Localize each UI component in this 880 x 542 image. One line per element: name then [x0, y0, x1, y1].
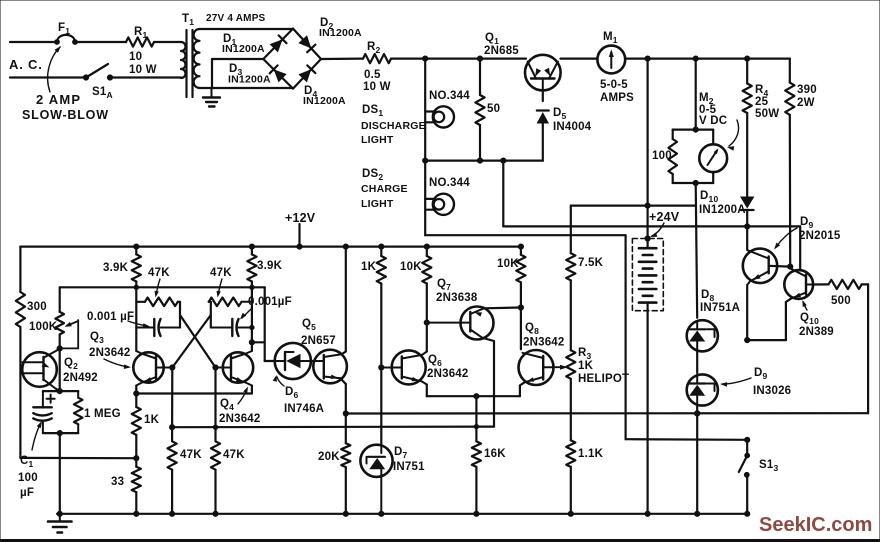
wire +12V rail	[20, 244, 523, 249]
diode D2	[298, 35, 315, 52]
svg-text:50W: 50W	[755, 108, 779, 120]
label 16K	[484, 448, 506, 460]
label DS2	[361, 168, 408, 210]
diode D1	[270, 35, 287, 52]
wire 7.5K top	[570, 206, 572, 254]
wire right net left side	[210, 302, 212, 328]
zener D6	[275, 343, 311, 379]
svg-text:SeekIC.com: SeekIC.com	[759, 514, 872, 536]
label Q3	[89, 331, 130, 359]
label Q8	[523, 322, 564, 349]
svg-text:IN746A: IN746A	[284, 403, 324, 415]
wire switch to T1 primary	[110, 76, 181, 78]
label T1	[182, 13, 194, 27]
svg-text:3.9K: 3.9K	[103, 262, 129, 274]
wire Q10 emitter	[747, 299, 791, 341]
svg-text:2N3642: 2N3642	[523, 337, 564, 349]
wire M2 feed	[695, 59, 697, 130]
wire D6 to Q5	[311, 360, 314, 362]
meter M1	[597, 46, 625, 74]
label 10K second	[497, 258, 519, 270]
label D5	[553, 107, 592, 133]
wire D10 to Q9	[746, 226, 748, 249]
wire 800 drop	[799, 226, 801, 270]
callout arrow D6	[273, 375, 284, 386]
svg-text:20K: 20K	[318, 451, 340, 463]
transistor Q1	[525, 55, 561, 91]
label Q10	[799, 312, 834, 338]
label Q7	[436, 278, 478, 304]
border bottom edge	[0, 540, 880, 542]
resistor 390	[785, 59, 794, 267]
label D10	[699, 190, 746, 216]
watermark SeekIC.com	[759, 514, 872, 536]
potentiometer R3	[566, 350, 575, 440]
capacitor 0.001 left	[136, 319, 180, 336]
wire to D6	[265, 360, 275, 362]
wire bridge edge TL	[263, 29, 293, 59]
svg-text:2 AMP: 2 AMP	[36, 92, 81, 107]
svg-text:5-0-5: 5-0-5	[600, 79, 628, 91]
transistor Q10	[784, 268, 813, 299]
callout arrow Q10	[803, 300, 808, 310]
label R4	[755, 84, 779, 120]
wire M2 box bottom	[673, 180, 714, 185]
wire bridge edge BR	[293, 59, 321, 89]
resistor 7.5K	[566, 253, 575, 350]
svg-text:LIGHT: LIGHT	[361, 134, 394, 146]
label 20K	[318, 451, 340, 463]
battery +24V	[639, 248, 656, 302]
wire M1 right bus	[625, 56, 790, 61]
svg-text:390: 390	[797, 84, 817, 96]
wire pot to box	[57, 346, 62, 394]
label 100	[652, 150, 672, 162]
switch S13	[739, 440, 750, 514]
wire bottom bus	[57, 511, 750, 516]
label 3.9K right	[257, 260, 283, 272]
wire left vertical top	[19, 247, 21, 292]
label 100K	[29, 321, 58, 333]
svg-text:2N3638: 2N3638	[436, 292, 478, 304]
label 300	[27, 301, 47, 313]
wire Q5 emitter down	[340, 378, 346, 413]
label 390	[797, 84, 817, 109]
wire +12V stub	[298, 224, 300, 247]
wire lamp branch vertical	[424, 59, 426, 236]
transistor Q6	[379, 350, 427, 384]
wire bus 427	[170, 424, 495, 429]
label 2 AMP SLOW-BLOW	[22, 92, 109, 122]
zener D7	[360, 445, 392, 514]
wire 458 horizontal	[20, 456, 138, 461]
wire Q3 emitter drop	[134, 386, 139, 397]
transistor Q5	[313, 350, 347, 384]
resistor 33	[132, 467, 141, 514]
resistor 10K first	[422, 247, 431, 323]
wire 300 to Q2	[19, 327, 21, 458]
svg-text:IN4004: IN4004	[553, 121, 592, 133]
label C1	[18, 455, 38, 499]
resistor 16K	[472, 441, 481, 513]
label 27V 4AMPS	[206, 13, 266, 24]
label 7.5K	[578, 257, 604, 269]
wire Q6 collector up	[424, 320, 429, 352]
zener D9	[687, 374, 718, 406]
svg-text:HELIPOT: HELIPOT	[578, 373, 629, 385]
resistor 3.9K right	[247, 247, 256, 351]
wire 439 horizontal	[626, 437, 750, 442]
svg-text:AMPS: AMPS	[600, 92, 634, 104]
svg-text:47K: 47K	[210, 267, 232, 279]
svg-text:2N2015: 2N2015	[799, 230, 841, 242]
wire 235 horizontal	[425, 234, 625, 236]
resistor 10K second	[516, 247, 525, 308]
svg-text:NO.344: NO.344	[429, 177, 470, 189]
resistor 1K	[132, 394, 141, 467]
wire Q8 emitter down	[520, 382, 525, 396]
svg-text:IN1200A: IN1200A	[303, 95, 346, 107]
wire rail287 left end	[59, 287, 61, 312]
wire D7 branch	[380, 368, 382, 445]
callout arrow Q4	[238, 387, 248, 405]
wire battery minus down	[646, 303, 648, 514]
wire R2 to Q1	[391, 56, 526, 61]
wire fuse to R1	[75, 41, 126, 43]
wire Q4 collector tap	[249, 340, 264, 345]
wire Q9 emitter down	[745, 285, 750, 343]
resistor 50	[475, 59, 484, 161]
svg-text:2N3642: 2N3642	[219, 413, 260, 425]
wire M2 to D8	[696, 183, 698, 318]
label D8	[700, 289, 740, 314]
wire box top	[43, 390, 78, 392]
svg-text:2N3642: 2N3642	[427, 368, 468, 380]
wire Q7 emitter	[484, 305, 524, 310]
resistor 47K bottom-right	[211, 441, 220, 514]
transistor Q2 UJT	[22, 348, 60, 391]
label 500	[831, 295, 851, 307]
wire secondary top to bridge	[200, 28, 294, 30]
wire Q4 base down	[214, 368, 216, 442]
capacitor 0.001 right	[211, 319, 254, 336]
callout arrow 47K-r	[217, 279, 223, 298]
label R2	[367, 41, 381, 55]
wire box to ground bus	[59, 433, 61, 514]
lamp DS2	[425, 194, 454, 215]
resistor 100	[668, 130, 677, 183]
wire 226 horizontal	[503, 224, 800, 229]
label NO.344 DS1	[429, 90, 470, 102]
svg-text:100: 100	[18, 472, 38, 484]
svg-text:47K: 47K	[148, 267, 170, 279]
svg-text:10K: 10K	[400, 261, 422, 273]
label Q1	[484, 32, 519, 57]
pot wiper	[60, 320, 78, 348]
potentiometer 100K	[55, 312, 64, 349]
wire 503 drop	[502, 161, 504, 227]
wire emitter bus	[136, 386, 252, 394]
label Q4	[219, 398, 260, 425]
label 1.1K	[578, 448, 604, 460]
label 0.001uF left	[87, 311, 134, 323]
ground below transformer	[203, 88, 220, 107]
wire bridge edge TR	[293, 29, 321, 59]
svg-text:2N3642: 2N3642	[89, 347, 130, 359]
label 10K first	[400, 261, 422, 273]
svg-text:1.1K: 1.1K	[578, 448, 604, 460]
wire D9 to bottom	[695, 406, 700, 514]
callout arrow M2	[727, 120, 739, 151]
resistor 1K mid	[377, 247, 386, 368]
cross-coupling diagonal left	[180, 315, 216, 368]
svg-text:0.001µF: 0.001µF	[248, 296, 292, 308]
label M1 scale	[600, 79, 634, 104]
wire 10K2 to Q8	[520, 308, 522, 350]
transformer T1 primary winding	[181, 42, 186, 78]
resistor 3.9K left	[132, 247, 141, 351]
callout arrow 47K-l	[155, 279, 161, 298]
label D3	[228, 63, 271, 86]
wire Q5 collector up	[342, 247, 346, 355]
label Q6	[427, 354, 468, 380]
wire 625 vertical	[624, 235, 626, 439]
wire bridge to R2	[321, 57, 363, 60]
label 47K bottom-left	[180, 449, 202, 461]
fuse F1	[55, 35, 78, 45]
label F1	[58, 22, 70, 36]
resistor 47K bottom-left	[168, 427, 177, 514]
svg-text:0.5: 0.5	[364, 69, 381, 81]
label M1	[603, 31, 618, 45]
wire Q3 base down	[171, 368, 173, 428]
svg-text:IN1200A: IN1200A	[319, 27, 362, 39]
wiper R3	[554, 365, 568, 370]
label 33	[111, 476, 124, 488]
wire bus 413	[346, 411, 868, 416]
svg-text:+24V: +24V	[649, 210, 680, 224]
svg-text:IN1200A: IN1200A	[699, 204, 746, 216]
label D6	[284, 386, 324, 415]
label 1K mid	[361, 261, 377, 273]
wire tap to bridge left	[212, 58, 263, 60]
svg-text:1 MEG: 1 MEG	[84, 408, 121, 420]
wire bridge edge BL	[263, 59, 293, 89]
svg-text:IN751: IN751	[393, 461, 425, 473]
svg-text:16K: 16K	[484, 448, 506, 460]
svg-text:100: 100	[652, 150, 672, 162]
wire emitter bus 2	[427, 394, 520, 399]
wire 205 horizontal	[571, 205, 696, 207]
resistor 47K top-left	[136, 298, 180, 307]
label D4	[303, 85, 346, 107]
wire Q7 collector	[482, 338, 494, 427]
svg-text:10K: 10K	[497, 258, 519, 270]
svg-text:25: 25	[755, 96, 769, 108]
resistor 1.1K	[566, 440, 575, 514]
diode D3	[270, 65, 287, 82]
ground main	[48, 514, 72, 533]
wire Q9 base	[769, 264, 793, 269]
label 1K	[144, 414, 160, 426]
wire R1 to T1 primary	[154, 41, 181, 43]
label 47K top-left	[148, 267, 170, 279]
battery dashed box	[632, 239, 663, 311]
wire AC line top-left	[10, 41, 56, 43]
switch S1A	[83, 64, 112, 80]
label S13	[759, 459, 778, 473]
label 3.9K left	[103, 262, 129, 274]
resistor 500	[813, 280, 868, 289]
wire Q5 emitter node	[343, 411, 348, 443]
svg-text:2N492: 2N492	[63, 372, 98, 384]
label 47K top-right	[210, 267, 232, 279]
callout arrow D9t	[774, 228, 797, 250]
svg-text:IN751A: IN751A	[700, 302, 740, 314]
svg-text:33: 33	[111, 476, 124, 488]
transformer T1 secondary winding	[194, 29, 200, 88]
diode D10	[740, 197, 754, 227]
wire right edge drop	[867, 284, 869, 413]
resistor 1MEG	[74, 391, 83, 433]
wire Q1 base down	[542, 90, 544, 101]
label 50	[487, 103, 500, 115]
resistor 47K top-right	[209, 298, 252, 307]
label D1	[222, 33, 265, 55]
wire box bottom	[43, 431, 78, 436]
callout arrow D9z	[720, 378, 751, 387]
label 47K bottom-right	[223, 449, 245, 461]
svg-text:2N389: 2N389	[799, 326, 834, 338]
label Q2	[63, 357, 98, 384]
label +24V	[649, 210, 680, 224]
label DS1	[361, 104, 426, 146]
svg-text:7.5K: 7.5K	[578, 257, 604, 269]
svg-text:1K: 1K	[361, 261, 377, 273]
label NO.344 DS2	[429, 177, 470, 189]
wire AC line bottom	[10, 76, 86, 78]
label D7	[393, 446, 425, 473]
svg-text:1K: 1K	[578, 360, 594, 372]
label D9 zener	[753, 367, 791, 397]
wire secondary tap jog	[211, 59, 213, 88]
svg-text:IN1200A: IN1200A	[228, 74, 271, 86]
svg-text:10: 10	[129, 51, 142, 63]
svg-text:100K: 100K	[29, 321, 58, 333]
label C1 plus	[47, 395, 55, 403]
resistor R4	[743, 59, 752, 197]
wire left net right side	[179, 302, 181, 328]
transistor Q7	[427, 307, 494, 340]
svg-text:DISCHARGE: DISCHARGE	[361, 120, 426, 132]
label R3	[578, 347, 629, 385]
wire M2 box top	[673, 127, 714, 132]
lamp DS1	[425, 106, 454, 127]
wire battery feed	[645, 59, 650, 249]
transistor Q4	[216, 351, 254, 386]
svg-text:300: 300	[27, 301, 47, 313]
wire bus 160	[423, 158, 543, 163]
resistor R1	[126, 37, 154, 46]
transformer T1 core	[187, 30, 193, 97]
diode D4	[298, 65, 315, 82]
svg-text:V DC: V DC	[699, 115, 727, 127]
transistor D9 2N2015	[743, 249, 777, 285]
svg-text:SLOW-BLOW: SLOW-BLOW	[22, 108, 109, 122]
wire rail 287	[60, 285, 265, 289]
label +12V	[285, 211, 316, 225]
transistor Q8	[519, 350, 554, 385]
label A.C.	[9, 57, 43, 72]
capacitor C1	[33, 391, 51, 433]
label D2	[319, 17, 362, 39]
label 0.001uF right	[248, 296, 292, 308]
svg-text:µF: µF	[20, 487, 34, 499]
svg-text:NO.344: NO.344	[429, 90, 470, 102]
callout arrow fuse	[48, 46, 61, 92]
svg-text:0.001 µF: 0.001 µF	[87, 311, 134, 323]
callout arrow Q3	[104, 359, 131, 369]
label 1MEG	[84, 408, 121, 420]
label D9 2N2015	[799, 216, 841, 242]
svg-text:47K: 47K	[180, 449, 202, 461]
label M2	[699, 92, 727, 127]
svg-text:500: 500	[831, 295, 851, 307]
svg-text:+12V: +12V	[285, 211, 316, 225]
label R1 value	[129, 51, 157, 76]
svg-text:27V 4 AMPS: 27V 4 AMPS	[206, 13, 266, 24]
resistor 300	[16, 292, 25, 327]
cross-coupling diagonal right	[172, 315, 211, 368]
zener D8	[687, 320, 718, 351]
diode D5	[537, 111, 549, 161]
wire Q1 to M1	[561, 57, 598, 59]
node Q4 base	[213, 365, 218, 370]
node Q3 base	[170, 365, 175, 370]
resistor 20K	[341, 443, 350, 514]
svg-text:2N685: 2N685	[484, 45, 519, 57]
label Q5	[301, 318, 336, 347]
svg-text:IN3026: IN3026	[753, 385, 791, 397]
resistor R2	[363, 54, 391, 63]
wire rail287 corner down	[264, 287, 266, 361]
label S1A	[92, 86, 113, 100]
meter M2	[699, 130, 727, 183]
svg-text:2N657: 2N657	[301, 335, 336, 347]
wire secondary bottom to bridge	[200, 87, 294, 89]
callout arrow C1	[32, 421, 42, 450]
svg-text:1K: 1K	[144, 414, 160, 426]
wire D8 to D9	[696, 351, 698, 373]
label R1	[134, 26, 148, 40]
svg-text:CHARGE: CHARGE	[361, 183, 408, 195]
transistor Q3	[133, 351, 172, 386]
svg-text:2W: 2W	[797, 97, 815, 109]
svg-text:47K: 47K	[223, 449, 245, 461]
wire Q6 emitter down	[426, 385, 428, 397]
callout arrow +24V	[650, 223, 664, 237]
svg-text:LIGHT: LIGHT	[361, 198, 394, 210]
callout arrow 0.001-r	[240, 308, 252, 320]
svg-text:IN1200A: IN1200A	[222, 43, 265, 55]
svg-text:50: 50	[487, 103, 500, 115]
wire 16K drop	[475, 396, 477, 441]
svg-text:A. C.: A. C.	[9, 57, 43, 72]
svg-text:3.9K: 3.9K	[257, 260, 283, 272]
label R2 value	[363, 69, 391, 93]
svg-text:10 W: 10 W	[363, 81, 391, 93]
svg-text:10 W: 10 W	[129, 64, 157, 76]
